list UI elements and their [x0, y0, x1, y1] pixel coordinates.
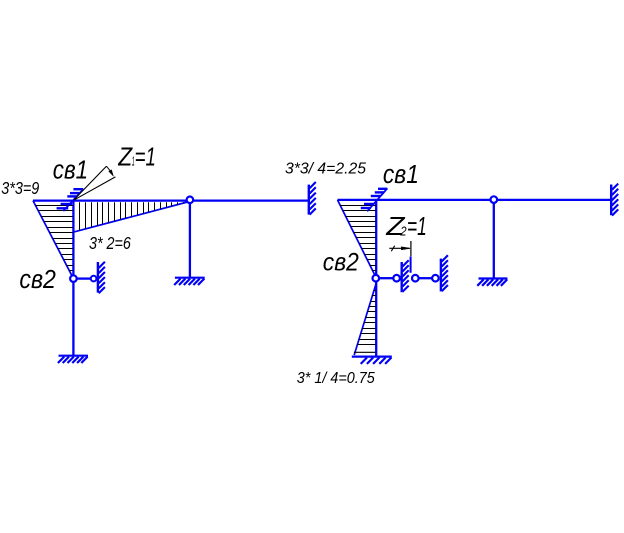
svg-text:2: 2 — [400, 225, 407, 239]
svg-text:3* 1/ 4=0.75: 3* 1/ 4=0.75 — [297, 370, 375, 387]
svg-text:=1: =1 — [407, 213, 427, 241]
svg-text:=1: =1 — [135, 144, 156, 172]
svg-text:3*3/ 4=2.25: 3*3/ 4=2.25 — [285, 161, 366, 178]
svg-text:св1: св1 — [383, 161, 419, 189]
svg-text:3* 2=6: 3* 2=6 — [89, 233, 131, 253]
svg-text:3*3=9: 3*3=9 — [1, 178, 39, 198]
svg-text:св2: св2 — [19, 266, 56, 294]
svg-text:св1: св1 — [53, 156, 88, 184]
svg-text:св2: св2 — [323, 249, 359, 277]
